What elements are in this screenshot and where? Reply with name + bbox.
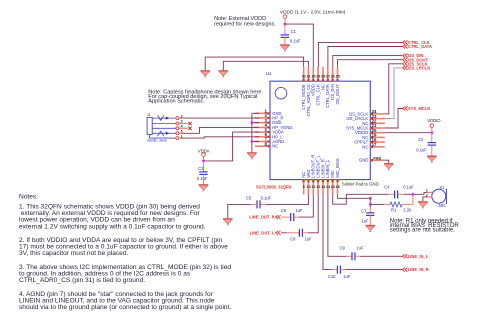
pin 28 NC (top) bbox=[320, 67, 325, 90]
pin 12 LINEOUT_L (bottom) bbox=[316, 155, 321, 195]
resistor R1 2.2k bbox=[384, 194, 413, 212]
svg-text:0.1uF: 0.1uF bbox=[197, 176, 208, 181]
svg-text:Solder Pad to GND: Solder Pad to GND bbox=[342, 181, 379, 186]
wire VDDIO stub bbox=[431, 127, 433, 132]
svg-text:32: 32 bbox=[302, 74, 306, 78]
svg-text:3V, this capacitor must not be: 3V, this capacitor must not be placed. bbox=[19, 250, 129, 257]
svg-text:15: 15 bbox=[331, 185, 335, 189]
svg-text:C7: C7 bbox=[361, 209, 367, 214]
pin PAD GND (right) bbox=[359, 155, 385, 162]
svg-text:PAD: PAD bbox=[373, 155, 381, 160]
wire C3 top lead bbox=[203, 161, 205, 172]
wire VDDIO pin20 bbox=[385, 132, 432, 134]
wire pin31 CTRL_ADR0_CS to gnd bbox=[223, 61, 308, 70]
node label LINE_OUT_R bbox=[249, 215, 280, 220]
svg-text:10: 10 bbox=[307, 185, 311, 189]
svg-text:C5: C5 bbox=[246, 195, 252, 200]
power VDDIO supply bbox=[430, 124, 434, 128]
pin 17 NC (right) bbox=[362, 142, 385, 149]
wire I2S_SCLK bbox=[385, 64, 403, 114]
pin 23 I2S_LRCLK (right) bbox=[346, 114, 384, 121]
wire pin15 MIC to C4 bbox=[333, 194, 389, 204]
wire PAD to gnd bbox=[385, 160, 389, 163]
op-amp U1 SGTL5000 32QFN body bbox=[270, 81, 370, 179]
capacitor C7 1uF bbox=[361, 209, 374, 224]
pin 9 NC (bottom) bbox=[301, 172, 306, 195]
svg-text:17: 17 bbox=[372, 142, 377, 147]
wire LINE_OUT_R to C6 lead bbox=[281, 216, 291, 218]
wire VDDA stub bbox=[203, 156, 205, 161]
ground below C7 bbox=[366, 225, 376, 232]
wire C8 to pin12 bbox=[308, 194, 319, 232]
pin 29 CTRL_CLK (top) bbox=[316, 67, 321, 106]
node label I2S_SCLK bbox=[403, 61, 428, 66]
microphone X1 bbox=[426, 185, 447, 208]
ground VAG cap ground bbox=[223, 219, 233, 226]
wire left ground bus bbox=[251, 113, 253, 152]
wire CTRL_DATA bbox=[328, 47, 403, 67]
junction MIC_BIAS node bbox=[369, 197, 372, 200]
svg-text:VDDD (1.1V - 2.0V, 11mA Min): VDDD (1.1V - 2.0V, 11mA Min) bbox=[280, 10, 346, 16]
pin 21 SYS_MCLK (right) bbox=[346, 123, 385, 130]
wire J1-5 to HP_VGND bbox=[181, 127, 259, 133]
svg-text:1uF: 1uF bbox=[296, 208, 304, 213]
svg-text:C2: C2 bbox=[418, 137, 424, 142]
ground CTRL_ADR0_CS bbox=[219, 71, 229, 78]
svg-text:C4: C4 bbox=[384, 185, 390, 190]
svg-text:I2S_LRCLK: I2S_LRCLK bbox=[408, 66, 430, 71]
node label I2S_DOUT bbox=[403, 57, 429, 62]
wire J1-2 to HP_R bbox=[181, 117, 259, 119]
capacitor C10 1uF bbox=[328, 266, 351, 279]
pin 20 VDDIO (right) bbox=[355, 128, 385, 135]
pin 10 VAG (bottom) bbox=[306, 169, 311, 194]
pin 6 HP_L (left) bbox=[255, 132, 283, 139]
svg-text:NC: NC bbox=[272, 144, 278, 149]
wire AGND pin7 bbox=[252, 141, 259, 143]
wire C2 top lead bbox=[431, 133, 433, 143]
svg-text:16: 16 bbox=[336, 185, 340, 189]
pin J1-2 bbox=[176, 114, 183, 119]
svg-text:GND: GND bbox=[359, 158, 368, 163]
svg-text:1uF: 1uF bbox=[305, 237, 313, 242]
pin 5 VDDA (left) bbox=[255, 127, 284, 134]
svg-text:LINE_OUT_L: LINE_OUT_L bbox=[250, 230, 276, 235]
wire MIC_BIAS down to C7/R1 bbox=[369, 198, 371, 207]
svg-text:1uF: 1uF bbox=[356, 246, 364, 251]
wire C3 bottom lead bbox=[203, 174, 205, 184]
node label LINE_IN_L bbox=[402, 254, 428, 259]
node label I2S_LRCLK bbox=[403, 66, 431, 71]
wire pin16 MIC_BIAS bbox=[338, 194, 371, 198]
pin J1-4 bbox=[176, 125, 183, 130]
node label I2S_DIN bbox=[403, 53, 424, 58]
svg-text:MIC_BIAS: MIC_BIAS bbox=[335, 158, 340, 178]
ground below C3 bbox=[199, 185, 209, 192]
svg-text:1: 1 bbox=[426, 189, 428, 193]
wire VDDA to pin5 bbox=[204, 132, 260, 161]
svg-text:Application Schematic.: Application Schematic. bbox=[148, 99, 205, 105]
wire C7 bottom lead bbox=[369, 215, 371, 225]
pin 31 CTRL_ADR0_CS (top) bbox=[306, 67, 311, 117]
pin 8 NC (left) bbox=[255, 141, 278, 148]
svg-text:0.1uF: 0.1uF bbox=[290, 38, 301, 43]
capacitor C8 1uF bbox=[290, 229, 312, 242]
svg-text:9: 9 bbox=[303, 185, 305, 189]
svg-text:SYS_MCLK: SYS_MCLK bbox=[408, 106, 430, 111]
wire C4 to node B bbox=[404, 193, 413, 195]
wire J1-1 to HP_L bbox=[181, 137, 259, 138]
svg-text:28: 28 bbox=[321, 74, 325, 78]
pin 25 I2S_DOUT (top) bbox=[335, 67, 340, 105]
svg-text:C9: C9 bbox=[340, 246, 346, 251]
svg-text:30: 30 bbox=[311, 74, 315, 78]
power VDDA supply bbox=[202, 153, 206, 157]
svg-text:Notes:: Notes: bbox=[19, 194, 38, 201]
wire C8 left lead bbox=[287, 232, 299, 234]
wire mic pin2 to gnd bbox=[423, 197, 427, 201]
junction VDDIO node bbox=[430, 131, 433, 134]
pin 18 CPFILT (right) bbox=[354, 137, 385, 144]
svg-text:11: 11 bbox=[312, 185, 316, 189]
wire C1 bottom lead bbox=[284, 37, 286, 44]
svg-text:1uF: 1uF bbox=[362, 219, 370, 224]
svg-text:13: 13 bbox=[321, 185, 325, 189]
svg-text:should via to the ground plane: should via to the ground plane (or conne… bbox=[19, 304, 231, 311]
pin 32 CTRL_MODE (top) bbox=[301, 67, 306, 110]
wire C2 bottom lead bbox=[431, 145, 433, 156]
connector J1 contacts bbox=[150, 116, 176, 139]
svg-text:C8: C8 bbox=[290, 237, 296, 242]
wire C5 right lead bbox=[260, 203, 266, 205]
pin 11 LINEOUT_R (bottom) bbox=[311, 155, 316, 195]
capacitor C5 0.1uF bbox=[246, 195, 272, 208]
node label LINE_OUT_L bbox=[250, 230, 281, 235]
pin 19 NC (right) bbox=[362, 133, 385, 140]
svg-text:27: 27 bbox=[326, 74, 330, 78]
wire C10 left lead bbox=[332, 269, 338, 271]
wire pin14 to C9 bbox=[328, 194, 346, 256]
wire C1 top lead bbox=[284, 24, 286, 35]
node label LINE_IN_R bbox=[402, 267, 428, 272]
wire C4 right lead bbox=[398, 193, 404, 195]
ground below C1 bbox=[280, 45, 290, 52]
pin J1-1 bbox=[176, 134, 183, 139]
node label CTRL_CLK bbox=[403, 40, 430, 45]
svg-text:LINE_IN_L: LINE_IN_L bbox=[408, 254, 429, 259]
svg-text:NC: NC bbox=[362, 144, 368, 149]
ground below C2 bbox=[427, 156, 437, 163]
svg-text:C1: C1 bbox=[291, 29, 297, 34]
svg-text:12: 12 bbox=[316, 185, 320, 189]
svg-text:CTRL_ADR0_CS (pin 31) is tied: CTRL_ADR0_CS (pin 31) is tied to ground. bbox=[19, 277, 145, 284]
node label SYS_MCLK bbox=[403, 106, 431, 111]
junction VDDD node bbox=[284, 23, 287, 26]
wire I2S_DIN bbox=[333, 56, 403, 67]
wire C10 right lead bbox=[340, 269, 345, 271]
svg-text:2.2k: 2.2k bbox=[403, 208, 412, 213]
junction R1 tee bbox=[369, 203, 372, 206]
wire GND pin3 bbox=[252, 122, 259, 124]
svg-text:external 1.2V switching supply: external 1.2V switching supply with a 0.… bbox=[19, 223, 206, 230]
wire LINE_OUT_L to C8 bbox=[281, 232, 287, 234]
svg-text:C6: C6 bbox=[281, 208, 287, 213]
svg-text:31: 31 bbox=[307, 74, 311, 78]
connector J1 audio jack body bbox=[147, 113, 167, 142]
pin 2 HP_R (left) bbox=[255, 113, 283, 120]
wire C6 to pin11 bbox=[299, 194, 313, 217]
wire pin13 to C10 bbox=[323, 194, 332, 269]
svg-text:C10: C10 bbox=[328, 274, 336, 279]
pin 1 GND (left) bbox=[255, 109, 282, 116]
svg-text:settings are not suitable.: settings are not suitable. bbox=[390, 228, 455, 234]
wire C4 left lead bbox=[388, 193, 394, 195]
ground CTRL_MODE bbox=[200, 71, 210, 78]
svg-text:26: 26 bbox=[331, 74, 335, 78]
svg-text:U1: U1 bbox=[266, 71, 272, 76]
wire I2S_DOUT bbox=[338, 60, 403, 67]
junction pin7 gnd bbox=[251, 140, 254, 143]
svg-text:29: 29 bbox=[316, 74, 320, 78]
wire VAG pin10 to C5 bbox=[266, 194, 309, 204]
pin J1-5 bbox=[176, 130, 183, 135]
svg-text:LINE_IN_R: LINE_IN_R bbox=[408, 267, 429, 272]
wire C6 right lead bbox=[294, 216, 299, 218]
junction VDDA node bbox=[202, 160, 205, 163]
wire C5 left lead bbox=[251, 203, 257, 205]
wire I2S_LRCLK bbox=[385, 68, 403, 119]
wire C8 right lead bbox=[302, 232, 307, 234]
pin 16 MIC_BIAS (bottom) bbox=[335, 158, 340, 194]
wire to R1 bbox=[370, 203, 384, 205]
node label CTRL_DATA bbox=[403, 44, 432, 49]
capacitor C4 0.1uF bbox=[384, 185, 414, 199]
pin 24 I2S_SCLK (right) bbox=[349, 109, 385, 116]
wire C5 to gnd bbox=[228, 204, 251, 218]
svg-text:25: 25 bbox=[336, 74, 340, 78]
capacitor C9 1uF bbox=[340, 246, 364, 261]
capacitor C6 1uF bbox=[281, 208, 303, 221]
svg-text:VDDIO: VDDIO bbox=[427, 118, 441, 123]
svg-text:R1: R1 bbox=[391, 208, 397, 213]
wire C9 to label bbox=[360, 255, 402, 257]
wire pin32 CTRL_MODE to gnd bbox=[205, 57, 303, 70]
pin 26 I2S_DIN (top) bbox=[330, 67, 335, 100]
wire node B to mic pin1 bbox=[413, 192, 427, 194]
pin 7 AGND (left) bbox=[255, 137, 284, 144]
junction node B bbox=[412, 193, 415, 196]
node notes text block bbox=[19, 194, 231, 312]
wire VDDD to pin30 bbox=[285, 24, 313, 67]
pin 22 NC (right) bbox=[362, 119, 385, 126]
pin 27 CTRL_DATA (top) bbox=[325, 67, 330, 108]
wire CTRL_CLK bbox=[318, 42, 402, 66]
pin J1-3 bbox=[176, 120, 183, 125]
svg-text:X1: X1 bbox=[439, 185, 445, 190]
capacitor C2 0.1uF bbox=[416, 137, 436, 152]
pin 3 GND (left) bbox=[255, 118, 282, 125]
svg-text:0.1uF: 0.1uF bbox=[403, 185, 414, 190]
svg-text:0.1uF: 0.1uF bbox=[416, 147, 427, 152]
svg-text:1uF: 1uF bbox=[343, 274, 351, 279]
wire SYS_MCLK bbox=[385, 109, 403, 129]
ground solder pad bbox=[384, 164, 394, 171]
svg-text:MIC: MIC bbox=[439, 203, 447, 208]
capacitor C1 0.1uF bbox=[281, 29, 301, 43]
ground left star ground bbox=[247, 153, 257, 160]
no-connect X on J1-3 bbox=[181, 122, 191, 125]
svg-text:C3: C3 bbox=[198, 166, 204, 171]
svg-text:required for new designs.: required for new designs. bbox=[214, 22, 276, 28]
wire C9 right lead bbox=[355, 255, 360, 257]
wire C10 to label bbox=[346, 269, 403, 271]
svg-text:0.1uF: 0.1uF bbox=[261, 195, 272, 200]
no-connect X on J1-4 bbox=[181, 127, 191, 130]
wire GND pin1 bbox=[252, 112, 259, 114]
pin 4 HP_VGND (left) bbox=[255, 123, 292, 130]
svg-text:J1: J1 bbox=[147, 113, 151, 117]
svg-text:I2S_DOUT: I2S_DOUT bbox=[335, 84, 340, 105]
wire C7 top lead bbox=[369, 207, 371, 213]
svg-text:CTRL_DATA: CTRL_DATA bbox=[408, 44, 432, 49]
wire VDDD supply stub bbox=[284, 19, 286, 25]
power VDDD supply bbox=[283, 15, 287, 19]
svg-text:LINE_OUT_R: LINE_OUT_R bbox=[249, 215, 275, 220]
pin 13 LINEIN_R (bottom) bbox=[320, 159, 325, 194]
pin 30 VDDD (top) bbox=[311, 67, 316, 96]
svg-text:SGTL5000_32QFN: SGTL5000_32QFN bbox=[256, 185, 292, 190]
junction pin3 gnd bbox=[251, 121, 254, 124]
pin 14 LINEIN_L (bottom) bbox=[325, 159, 331, 194]
wire C9 left lead bbox=[346, 255, 352, 257]
ground mic ground bbox=[418, 202, 428, 209]
pin 15 MIC (bottom) bbox=[330, 170, 335, 194]
capacitor C3 0.1uF bbox=[197, 166, 208, 181]
